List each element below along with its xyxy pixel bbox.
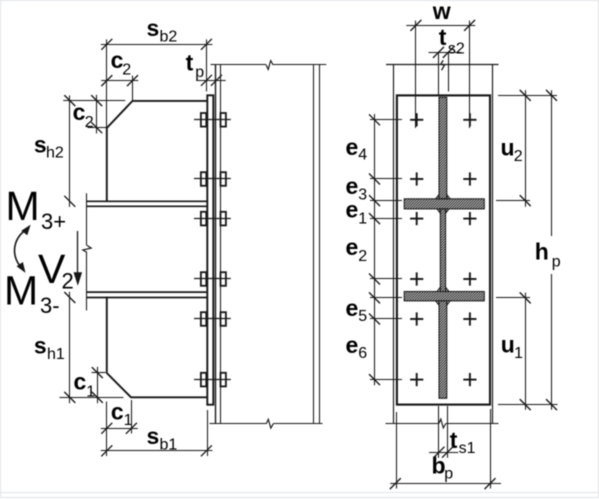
svg-text:1: 1 [514,345,523,362]
dimension t_p [186,50,226,86]
bolt row 5 (face view + marks) [410,312,476,325]
svg-text:6: 6 [358,345,367,362]
svg-text:c: c [73,99,86,125]
svg-text:3: 3 [358,187,367,204]
beam top flange (hatched) [404,199,484,209]
girder bottom cut line with break [386,419,499,428]
extension lines t_s2 [439,52,449,95]
bolt row spacing dimension line (e-line) [369,114,380,385]
bolt row 3 (face view + marks) [410,212,476,225]
bottom haunch plate [107,297,207,398]
svg-text:2: 2 [358,248,367,265]
svg-text:2: 2 [62,268,74,293]
svg-text:5: 5 [358,308,367,325]
dimension t_s1 [429,427,476,458]
svg-text:t: t [450,427,458,453]
label M3+ [6,183,67,234]
label e6 [346,332,368,362]
label e5 [346,295,368,325]
bolt row 2 (side view) [194,172,231,186]
column top cut line with break [211,61,327,70]
label e4 [346,134,368,164]
svg-text:3+: 3+ [41,209,66,234]
beam cut line with break [83,193,91,310]
svg-text:c: c [74,368,87,394]
extension lines s_b2 [107,39,207,128]
bolt row 6 (face view + marks) [410,373,476,386]
beam bottom flange (hatched) [404,292,484,301]
extension line c_2 horizontal [132,76,134,101]
extension lines for e dimensions [370,120,402,380]
dimension c_2 vertical [73,95,103,133]
svg-text:2: 2 [122,62,131,79]
bolt row 2 (face view + marks) [410,172,476,185]
dimension c_1 vertical [74,367,103,403]
shear arrow V2 [74,231,83,286]
bolt row 5 (side view) [194,312,231,326]
svg-text:p: p [444,465,453,482]
svg-text:p: p [195,64,204,81]
extension lines right side [496,96,558,405]
girder top cut line [386,64,499,66]
label e3 [346,173,368,204]
end plate (face view) [397,95,490,404]
svg-text:b2: b2 [160,29,178,46]
svg-text:2: 2 [514,148,523,165]
dimension t_s2 [429,24,465,58]
label e1 [346,197,368,228]
svg-text:w: w [432,0,451,24]
svg-text:c: c [111,399,124,425]
dimension s_b1 [101,423,213,456]
svg-text:3-: 3- [40,293,60,318]
dimension s_h2 [34,95,75,207]
svg-text:b1: b1 [160,436,178,453]
svg-text:e: e [346,134,359,160]
extension lines c_1 horizontal [107,400,132,456]
extension lines c_2 vertical [63,101,125,128]
svg-text:4: 4 [358,147,367,164]
dimension s_h1 [34,292,75,403]
svg-text:s: s [34,333,47,359]
svg-text:p: p [552,253,561,270]
bolt row 4 (face view + marks) [410,272,476,285]
dimension h_p [535,90,561,410]
beam top flange (side view) [87,201,207,206]
bolt row 3 (side view) [194,212,231,226]
bolt row 4 (side view) [194,272,231,286]
end plate (side view) [207,95,213,404]
column far flange lines [314,65,320,424]
svg-text:h: h [535,238,549,264]
bolt row 1 (side view) [194,113,231,127]
svg-text:t: t [439,24,447,50]
break squiggle on girder top cut line [441,60,445,70]
svg-text:M: M [6,183,40,229]
dimension w [406,0,475,31]
svg-text:h1: h1 [47,346,65,363]
dimension s_b2 [101,15,213,50]
svg-text:e: e [346,332,359,358]
extension lines c_1 vertical [59,373,123,398]
extension lines w (bolt gauge lines) [416,21,470,128]
svg-text:2: 2 [85,114,94,131]
svg-text:h2: h2 [46,145,64,162]
label M3- [4,268,60,319]
column bottom cut line with break [210,419,323,428]
extension lines b_p [397,409,491,489]
extension lines t_s1 [439,406,448,458]
label V2 [38,246,74,293]
top stiffener plate (hatched) [436,97,451,199]
svg-text:s: s [147,15,160,41]
dimension u1 [501,292,531,410]
top haunch plate [107,101,207,201]
label e2 [346,234,368,265]
svg-text:s: s [147,423,160,449]
dimension u2 [501,90,531,207]
moment arrow arc [15,225,31,273]
svg-text:1: 1 [358,210,367,227]
svg-text:u: u [501,332,515,358]
dimension c_1 horizontal [101,399,138,434]
svg-text:e: e [346,197,359,223]
girder edge lines (plan view) [394,65,493,424]
svg-text:e: e [346,295,359,321]
bottom stiffener plate (hatched) [436,301,451,398]
svg-text:s: s [34,132,47,158]
bolt row 6 (side view) [194,373,231,387]
svg-text:t: t [186,50,194,76]
beam bottom flange (side view) [87,292,207,297]
bolt row 1 (face view + marks) [410,113,476,126]
svg-text:e: e [346,173,359,199]
extension line s_b1 right [207,410,209,456]
svg-text:M: M [4,268,38,314]
dimension b_p [390,452,501,489]
svg-text:e: e [346,234,359,260]
svg-text:u: u [501,135,515,161]
svg-text:s1: s1 [459,440,476,457]
column flange lines (near) [216,65,221,424]
beam web (hatched) [437,209,449,292]
dimension c_2 horizontal [101,47,138,86]
svg-text:s2: s2 [448,40,465,57]
